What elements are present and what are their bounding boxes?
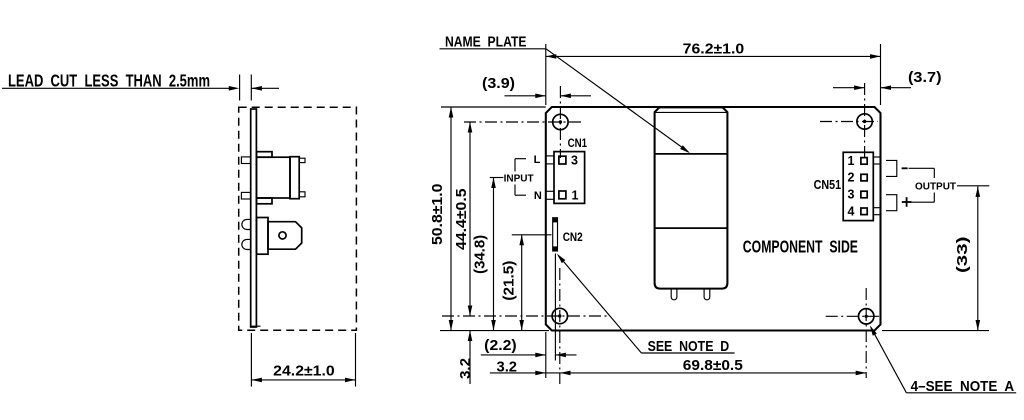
dimension (21.5) bbox=[501, 235, 552, 331]
minus sign bbox=[902, 167, 908, 169]
svg-text:(21.5): (21.5) bbox=[501, 261, 518, 301]
connector CN1 side view: bottom tab bbox=[299, 192, 305, 197]
CN51 pin squares bbox=[861, 158, 867, 215]
connector CN1 side view: header wafer bbox=[290, 157, 299, 199]
CN51 edge slot lower bbox=[873, 208, 880, 215]
connector CN2 body bbox=[553, 218, 558, 251]
dimension 50.8±1.0 bbox=[429, 107, 453, 331]
note SEE NOTE D bbox=[641, 338, 734, 355]
pin lead 1 (CN1) bbox=[241, 157, 250, 164]
faston terminal blade bbox=[268, 222, 302, 250]
see note D leader arrow bbox=[555, 252, 641, 353]
faston blade hole bbox=[279, 232, 286, 239]
svg-text:L: L bbox=[534, 154, 541, 166]
svg-text:OUTPUT: OUTPUT bbox=[915, 180, 957, 192]
PCB board outline (chamfered corners) bbox=[546, 107, 881, 331]
note NAME PLATE bbox=[440, 34, 547, 51]
svg-text:COMPONENT SIDE: COMPONENT SIDE bbox=[743, 236, 858, 256]
note 4-SEE NOTE A bbox=[906, 378, 1016, 395]
extension line CN2 center extended down bbox=[554, 254, 556, 361]
svg-text:24.2±1.0: 24.2±1.0 bbox=[273, 363, 335, 380]
CN2 end pads bbox=[553, 218, 558, 250]
faston terminal stem bbox=[257, 218, 269, 255]
mounting hole bottom-right bbox=[859, 309, 874, 324]
connector CN51 body bbox=[843, 152, 873, 220]
connector CN1 side view: top flange bbox=[257, 152, 273, 158]
output leader dash bbox=[957, 185, 989, 187]
CN1 pin 3 square bbox=[559, 156, 566, 164]
svg-text:3.2: 3.2 bbox=[497, 358, 518, 375]
svg-text:N: N bbox=[534, 190, 542, 202]
capacitor section line 2 bbox=[655, 227, 728, 229]
svg-text:3.2: 3.2 bbox=[457, 358, 474, 379]
svg-text:44.4±0.5: 44.4±0.5 bbox=[453, 188, 470, 250]
dashed case outline bbox=[239, 107, 357, 330]
pin lead 3 (faston) bbox=[242, 219, 251, 229]
mounting hole top-left bbox=[553, 114, 568, 129]
centerlines of top-left hole bbox=[464, 86, 584, 158]
svg-text:1: 1 bbox=[848, 154, 855, 168]
mounting hole bottom-left bbox=[552, 308, 567, 323]
svg-text:76.2±1.0: 76.2±1.0 bbox=[683, 41, 745, 58]
capacitor top inner line bbox=[656, 111, 727, 113]
name plate leader arrow bbox=[546, 49, 691, 155]
svg-text:CN51: CN51 bbox=[814, 178, 842, 192]
CN51 pin numbers 1-4 bbox=[848, 154, 855, 219]
centerlines of bottom-right hole bbox=[826, 288, 879, 378]
svg-text:4: 4 bbox=[848, 205, 855, 219]
plus sign bbox=[902, 197, 912, 207]
output tab plus bracket bbox=[886, 195, 897, 211]
input bracket bbox=[515, 159, 526, 196]
dimension (3.9) bbox=[482, 75, 591, 98]
svg-text:69.8±0.5: 69.8±0.5 bbox=[683, 357, 743, 374]
dimension 3.2 horizontal and 69.8±0.5 shared line bbox=[490, 357, 866, 375]
see note A leader arrow bbox=[868, 324, 907, 392]
extension line board top extended left bbox=[441, 106, 546, 108]
svg-text:(3.9): (3.9) bbox=[482, 75, 515, 92]
PCB bottom foot bbox=[250, 325, 261, 327]
extension tick at PCB face bbox=[250, 75, 252, 101]
svg-text:1: 1 bbox=[572, 189, 579, 203]
CN51 edge slot upper bbox=[873, 157, 880, 164]
connector CN1 side view: body bbox=[257, 157, 291, 198]
connector CN1 side view: top tab bbox=[299, 158, 305, 162]
CN1 edge slot lower bbox=[546, 191, 554, 199]
svg-text:INPUT: INPUT bbox=[504, 173, 535, 185]
output tab minus bracket bbox=[886, 160, 897, 176]
capacitor lead 2 bbox=[704, 289, 710, 300]
extension line board left edge extended down bbox=[545, 332, 547, 378]
svg-text:2: 2 bbox=[848, 170, 855, 184]
dimension (34.8) bbox=[472, 178, 504, 331]
mounting hole top-right bbox=[857, 114, 872, 129]
dimension 24.2±1.0: extension lines bbox=[251, 333, 355, 387]
leader line for lead cut note bbox=[2, 86, 239, 91]
CN1 edge slot upper bbox=[546, 156, 554, 164]
extension line board bottom extended left bbox=[440, 330, 549, 332]
svg-text:NAME PLATE: NAME PLATE bbox=[445, 34, 527, 51]
capacitor section line 1 bbox=[655, 153, 728, 155]
extension line board bottom extended right bbox=[882, 330, 989, 332]
dimension (2.2) bbox=[481, 337, 577, 357]
svg-text:(3.7): (3.7) bbox=[908, 69, 942, 86]
connector CN1 side view: bottom flange bbox=[257, 198, 273, 204]
svg-text:3: 3 bbox=[571, 154, 578, 168]
dimension 24.2±1.0: dimension line bbox=[251, 378, 355, 383]
dimension 44.4±0.5 bbox=[453, 122, 472, 316]
svg-text:50.8±1.0: 50.8±1.0 bbox=[429, 184, 446, 246]
dimension arrow right of 2.5mm gap bbox=[251, 86, 279, 91]
svg-text:LEAD CUT LESS THAN 2.5mm: LEAD CUT LESS THAN 2.5mm bbox=[8, 70, 210, 90]
note: LEAD CUT LESS THAN 2.5mm bbox=[8, 70, 210, 90]
svg-text:CN2: CN2 bbox=[563, 232, 583, 244]
svg-text:(2.2): (2.2) bbox=[484, 337, 517, 354]
output wiring lines bbox=[909, 168, 935, 202]
dimension (3.7) bbox=[833, 69, 942, 90]
dimension 76.2±1.0 bbox=[546, 41, 881, 105]
svg-text:CN1: CN1 bbox=[568, 138, 588, 150]
PCB edge-on strip bbox=[251, 109, 257, 327]
connector CN1 top view body bbox=[554, 152, 585, 204]
dimension (33) right side bbox=[954, 186, 980, 330]
svg-text:(34.8): (34.8) bbox=[472, 235, 489, 274]
svg-text:3: 3 bbox=[848, 187, 855, 201]
extension tick at lead tip bbox=[239, 75, 241, 101]
centerlines of bottom-left hole bbox=[442, 268, 610, 384]
pin lead 2 (CN1) bbox=[241, 192, 250, 199]
CN1 pin 1 square bbox=[559, 191, 566, 199]
centerlines of top-right hole bbox=[820, 83, 878, 158]
capacitor body bbox=[655, 107, 728, 288]
dimension 3.2 vertical (left) bbox=[457, 331, 474, 385]
svg-text:(33): (33) bbox=[954, 237, 971, 273]
capacitor lead 1 bbox=[671, 289, 677, 300]
pin lead 4 (faston) bbox=[242, 239, 251, 249]
